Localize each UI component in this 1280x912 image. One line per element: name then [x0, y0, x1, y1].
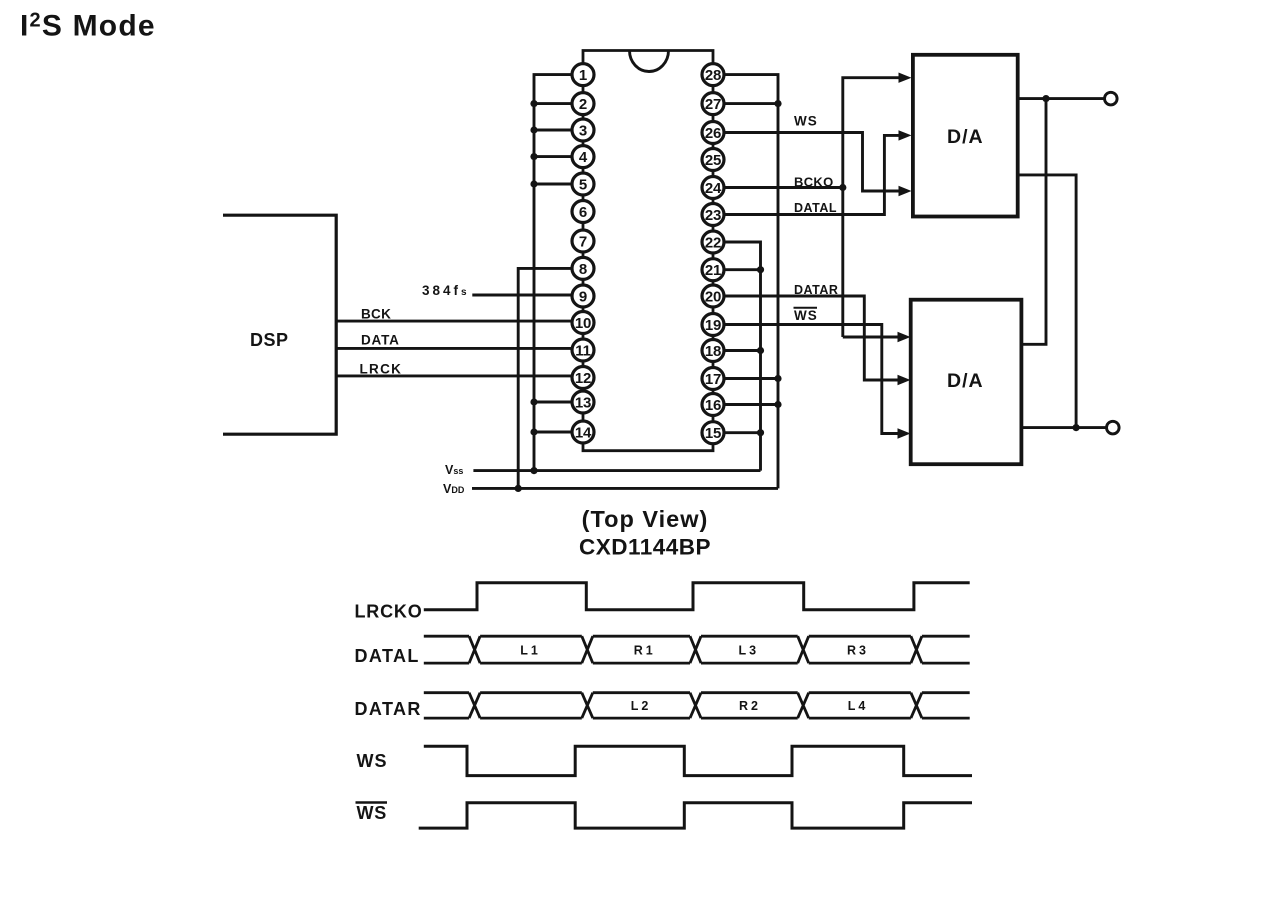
svg-text:DATA: DATA: [361, 333, 400, 348]
svg-text:17: 17: [705, 371, 721, 388]
svg-text:VDD: VDD: [443, 482, 465, 496]
svg-text:27: 27: [705, 96, 721, 113]
svg-text:R3: R3: [847, 644, 869, 658]
svg-text:DATAL: DATAL: [355, 646, 420, 666]
svg-text:18: 18: [705, 343, 721, 360]
svg-text:21: 21: [705, 262, 721, 279]
svg-text:2: 2: [579, 96, 587, 113]
svg-text:1: 1: [579, 67, 587, 84]
svg-text:WS: WS: [357, 751, 388, 771]
svg-text:CXD1144BP: CXD1144BP: [579, 535, 711, 560]
svg-text:L4: L4: [848, 699, 869, 713]
svg-text:19: 19: [705, 317, 721, 334]
svg-text:15: 15: [705, 425, 721, 442]
svg-text:4: 4: [579, 149, 588, 166]
svg-text:6: 6: [579, 204, 587, 221]
svg-text:DATAL: DATAL: [794, 201, 837, 215]
svg-text:384fs: 384fs: [422, 283, 467, 298]
svg-text:10: 10: [575, 315, 591, 332]
svg-text:3: 3: [579, 122, 587, 139]
svg-text:L1: L1: [520, 644, 541, 658]
svg-text:D/A: D/A: [947, 126, 984, 148]
svg-text:DATAR: DATAR: [355, 699, 422, 719]
svg-text:DSP: DSP: [250, 330, 289, 350]
svg-text:Vss: Vss: [445, 463, 463, 477]
svg-text:16: 16: [705, 397, 721, 414]
svg-text:24: 24: [705, 180, 722, 197]
svg-text:25: 25: [705, 152, 721, 169]
svg-text:26: 26: [705, 125, 721, 142]
svg-text:WS: WS: [357, 803, 388, 823]
svg-text:L2: L2: [631, 699, 652, 713]
svg-text:R2: R2: [739, 699, 761, 713]
svg-text:20: 20: [705, 288, 721, 305]
svg-text:14: 14: [575, 424, 592, 441]
svg-text:L3: L3: [739, 644, 760, 658]
svg-text:5: 5: [579, 176, 587, 193]
svg-text:22: 22: [705, 234, 721, 251]
svg-text:DATAR: DATAR: [794, 283, 838, 297]
svg-text:23: 23: [705, 207, 721, 224]
svg-text:9: 9: [579, 288, 587, 305]
svg-text:LRCK: LRCK: [360, 362, 403, 377]
svg-text:D/A: D/A: [947, 370, 984, 392]
svg-text:WS: WS: [794, 308, 818, 323]
svg-text:13: 13: [575, 394, 591, 411]
svg-text:LRCKO: LRCKO: [355, 602, 423, 622]
svg-text:28: 28: [705, 67, 721, 84]
svg-text:BCK: BCK: [361, 307, 391, 322]
svg-text:R1: R1: [634, 644, 656, 658]
svg-text:8: 8: [579, 261, 587, 278]
svg-text:11: 11: [575, 342, 590, 359]
svg-text:WS: WS: [794, 114, 818, 129]
svg-text:7: 7: [579, 233, 587, 250]
svg-text:(Top View): (Top View): [582, 506, 709, 532]
svg-text:BCKO: BCKO: [794, 175, 833, 190]
svg-text:12: 12: [575, 370, 591, 387]
